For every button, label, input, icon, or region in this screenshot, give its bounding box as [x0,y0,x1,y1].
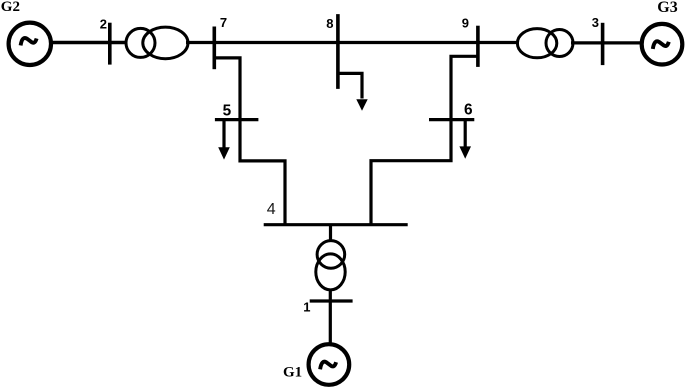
transformer T1 ellipse [316,254,345,290]
wire load tap at bus 8 [338,73,362,98]
bus 8 [336,14,340,89]
wire bus 7 to bus 5 to bus 4 [214,58,285,226]
wire bus 3 to G3 [601,41,642,44]
svg-text:1: 1 [303,300,310,315]
bus 2 [108,23,112,65]
wire transformer to bus 3 [571,41,604,44]
bus 6 [429,118,474,121]
wire transformer to bus 1 to G1 [329,289,332,345]
svg-text:4: 4 [267,201,276,218]
svg-text:5: 5 [223,102,232,119]
bus 4 [264,223,408,226]
svg-text:7: 7 [220,15,227,30]
load arrow at bus 6 [464,121,467,148]
load arrow at bus 5 [222,121,225,149]
wire transformer to bus 7 [186,41,216,44]
svg-text:2: 2 [100,16,107,31]
svg-text:3: 3 [592,15,599,30]
load arrow at bus 8 [356,99,367,111]
bus 7 [213,27,217,70]
svg-text:G1: G1 [283,365,302,381]
wire bus 4 to transformer [329,224,332,242]
generator G1 [309,344,350,385]
generator G3 [642,24,683,65]
wire bus 9 to bus 6 to bus 4 [371,56,478,226]
transformer T2 circle [126,28,155,57]
svg-text:9: 9 [462,15,469,30]
svg-text:G2: G2 [1,0,20,15]
transformer T3 ellipse [517,29,556,58]
bus 1 [310,299,353,302]
svg-text:G3: G3 [657,0,677,16]
bus 3 [601,23,605,65]
wire bus 7 to bus 9 (line 7-8-9) [213,41,479,44]
transformer T1 circle [317,241,345,269]
bus 9 [476,26,480,67]
transformer T3 circle [546,30,573,57]
generator G2 [9,23,51,65]
wire bus 9 to transformer [477,41,519,44]
wire G2 to bus 2 [51,41,127,45]
svg-text:8: 8 [326,16,333,31]
svg-text:6: 6 [464,102,473,119]
bus 5 [215,118,259,121]
transformer T2 ellipse [143,27,188,59]
